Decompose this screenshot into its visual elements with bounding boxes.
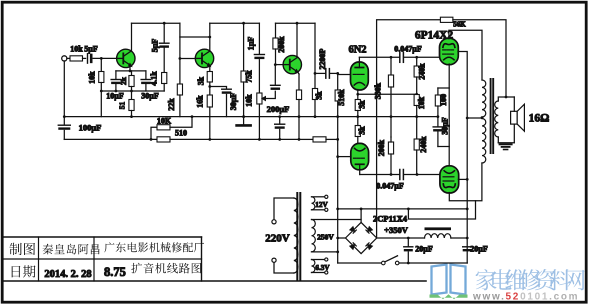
svg-text:10K: 10K: [157, 117, 172, 126]
svg-text:30μF: 30μF: [141, 92, 159, 101]
svg-text:3k: 3k: [358, 100, 367, 109]
svg-text:250V: 250V: [317, 233, 334, 242]
svg-text:0.047μF: 0.047μF: [394, 45, 422, 54]
svg-text:6P14X2: 6P14X2: [415, 30, 454, 42]
svg-text:10k: 10k: [245, 94, 254, 107]
svg-text:2CP11X4: 2CP11X4: [373, 214, 408, 224]
svg-text:6.3V: 6.3V: [315, 264, 330, 272]
svg-text:0.047μF: 0.047μF: [376, 181, 404, 190]
svg-text:100μF: 100μF: [79, 123, 102, 133]
svg-text:510k: 510k: [337, 89, 346, 106]
svg-text:51: 51: [118, 102, 127, 110]
svg-text:6N2: 6N2: [348, 45, 366, 56]
svg-text:200μF: 200μF: [267, 104, 290, 114]
svg-text:330k: 330k: [374, 82, 383, 99]
svg-text:1μF: 1μF: [247, 37, 256, 51]
svg-text:5μF: 5μF: [151, 39, 160, 53]
svg-text:16k: 16k: [196, 95, 205, 108]
svg-text:30μF: 30μF: [229, 93, 238, 111]
svg-text:2k: 2k: [119, 76, 128, 85]
svg-text:510: 510: [175, 128, 187, 137]
svg-text:10k: 10k: [70, 45, 83, 54]
svg-text:8.75: 8.75: [104, 265, 126, 279]
svg-text:10k: 10k: [417, 96, 426, 109]
svg-text:10k: 10k: [88, 71, 97, 84]
svg-text:3k: 3k: [315, 91, 324, 100]
svg-text:220V: 220V: [265, 233, 290, 245]
svg-text:+350V: +350V: [384, 225, 409, 235]
svg-text:100: 100: [439, 94, 448, 106]
svg-text:16Ω: 16Ω: [529, 113, 550, 125]
svg-text:3k: 3k: [358, 126, 367, 135]
svg-text:5μF: 5μF: [84, 45, 98, 54]
svg-text:200k: 200k: [277, 36, 286, 53]
svg-text:56K: 56K: [453, 21, 466, 29]
svg-text:20μF: 20μF: [415, 245, 433, 254]
svg-text:www.520101.com: www.520101.com: [472, 292, 579, 303]
svg-text:200k: 200k: [377, 139, 386, 156]
svg-text:3k: 3k: [197, 76, 206, 85]
svg-text:2200P: 2200P: [318, 48, 327, 69]
svg-text:12V: 12V: [315, 201, 328, 209]
svg-text:30μF: 30μF: [441, 117, 450, 135]
svg-text:2014. 2. 28: 2014. 2. 28: [44, 269, 91, 280]
svg-text:75k: 75k: [245, 70, 254, 83]
svg-text:4.1k: 4.1k: [150, 71, 159, 86]
svg-text:22k: 22k: [167, 98, 176, 111]
svg-text:20μF: 20μF: [470, 245, 488, 254]
svg-text:240k: 240k: [419, 136, 428, 153]
svg-text:10μF: 10μF: [106, 92, 124, 101]
svg-text:240k: 240k: [418, 63, 427, 80]
